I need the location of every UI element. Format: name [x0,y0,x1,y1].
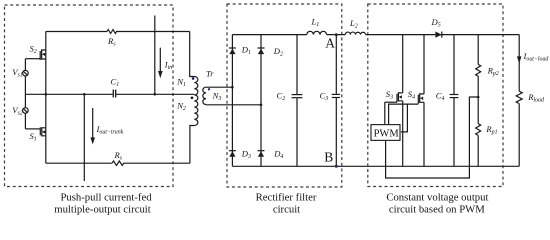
gate branch vertical with sources [24,59,26,129]
arrow Iout-load [517,56,522,63]
svg-text:B: B [324,150,333,165]
svg-text:Rs: Rs [114,150,123,162]
wire: S4 source down [423,102,425,166]
resistor Rload [516,91,522,103]
capacitor C3 [332,94,340,97]
transistor S4 drain branch [423,35,425,94]
inductor L2 [345,32,365,35]
wire: bridge right leg [260,35,262,167]
arrow Iout-trunk [90,108,95,144]
resistor Rp2 branch [477,35,479,65]
transformer primary winding N2 [194,101,198,125]
PWM box [371,125,400,141]
svg-text:C1: C1 [111,77,120,89]
diode D5 [435,32,441,38]
svg-text:L1: L1 [311,17,320,29]
svg-text:Iin: Iin [164,59,173,71]
svg-text:Rp2: Rp2 [487,66,499,78]
resistor Rs (top) [107,30,190,34]
resistor Rp1 [476,124,481,136]
source Vs2 [23,108,29,114]
capacitor C4 [450,95,459,98]
wire: gate tap to PWM right [401,104,408,132]
wire: trunk output line [83,94,85,181]
wire: load return [518,104,520,167]
wire: rail from L2 to load corner [366,34,520,36]
node B [335,165,338,168]
wire: S3 source down [402,101,404,167]
svg-text:C4: C4 [436,91,445,103]
wire: drain-source vertical S2/S1 [45,32,47,164]
capacitor C3 branch [335,35,337,167]
svg-text:Rectifier filter: Rectifier filter [256,191,317,203]
wire: transformer primary bottom feed [190,126,195,164]
node: S2 source junction [45,93,48,96]
polarity dot N2 [191,96,194,99]
svg-text:Vs1: Vs1 [12,67,23,79]
dashed box: constant voltage output circuit based on PWM [368,4,503,187]
diode D4 [258,151,265,157]
node: trunk output junction [83,93,86,96]
svg-text:L2: L2 [349,18,358,30]
wire: gate bus to PWM top [389,104,419,125]
wire: feedback divider to PWM [386,97,479,178]
svg-text:C3: C3 [320,91,329,103]
svg-text:S1: S1 [30,131,37,143]
wire: transformer primary top feed [190,32,195,77]
arrow Iin [158,48,163,78]
svg-text:Constant voltage output: Constant voltage output [386,191,488,203]
node: secondary to bridge left [231,86,234,89]
svg-text:multiple-output circuit: multiple-output circuit [54,203,150,215]
wire: bridge left leg [231,35,233,167]
wire: top rail of push-pull stage [46,31,107,33]
node: input feed junction [154,93,157,96]
svg-text:Iout−load: Iout−load [523,51,549,63]
svg-text:N1: N1 [176,77,186,89]
wire: S3 gate to PWM [384,102,386,124]
svg-text:Iout−trunk: Iout−trunk [96,124,124,136]
polarity dot N3 [208,88,210,90]
diode D3 [229,151,236,157]
svg-text:S2: S2 [30,44,37,56]
diode D1 [229,48,236,54]
wire: Rp1 to bottom rail [477,135,479,166]
svg-text:Push-pull current-fed: Push-pull current-fed [60,191,152,203]
svg-text:Rload: Rload [527,92,544,104]
wire: filter top rail [232,34,306,36]
dashed box: rectifier filter circuit [227,4,342,187]
resistor Rs (bottom) [112,161,190,165]
capacitor C4 branch [453,35,455,167]
wire: input feed line [154,16,156,95]
svg-text:Rp1: Rp1 [485,124,497,136]
svg-text:D1: D1 [241,45,251,57]
svg-text:N2: N2 [176,100,186,112]
node A [335,33,338,36]
inductor L1 [307,31,327,34]
svg-text:A: A [325,35,335,50]
svg-text:Vs2: Vs2 [12,105,23,117]
svg-text:D4: D4 [273,149,283,161]
node: divider tap [477,96,480,99]
dashed box: push-pull current-fed multiple-output circuit [5,5,174,187]
svg-text:circuit: circuit [273,203,300,215]
transistor S2 [25,49,45,60]
svg-text:S4: S4 [408,89,415,101]
wire: bottom rail of push-pull stage [46,162,112,164]
wire: rail from L1 to A [327,34,346,36]
svg-text:S3: S3 [386,89,393,101]
resistor Rp2 [476,64,481,76]
svg-text:PWM: PWM [374,129,400,140]
wire: divider mid [477,76,479,123]
diode D2 [258,48,265,54]
wire: load branch [518,35,520,92]
wire: secondary top lead [206,86,232,88]
transistor S4 [418,93,424,104]
polarity dot N1 [192,77,195,80]
transistor S1 [25,127,45,136]
svg-text:D2: D2 [273,46,283,58]
capacitor C1 [113,90,115,98]
capacitor C2 branch [296,35,298,167]
svg-text:N3: N3 [212,91,222,103]
wire: bottom rail (B) [232,165,519,167]
svg-text:D5: D5 [431,17,441,29]
capacitor C2 [292,95,303,98]
transformer secondary winding N3 [203,87,206,104]
transformer primary winding N1 [194,77,198,101]
svg-text:Rs: Rs [107,36,116,48]
source Vs1 [23,70,29,76]
svg-text:circuit based on PWM: circuit based on PWM [389,203,485,215]
wire: middle rail (center-tap node) [25,93,194,95]
transistor S3 [385,92,403,102]
svg-text:Tr: Tr [206,69,214,79]
transistor S3 drain branch [402,35,404,93]
wire: secondary bottom lead [206,104,261,106]
svg-text:D3: D3 [241,149,251,161]
node: secondary to bridge right [260,104,263,107]
svg-text:C2: C2 [277,91,286,103]
